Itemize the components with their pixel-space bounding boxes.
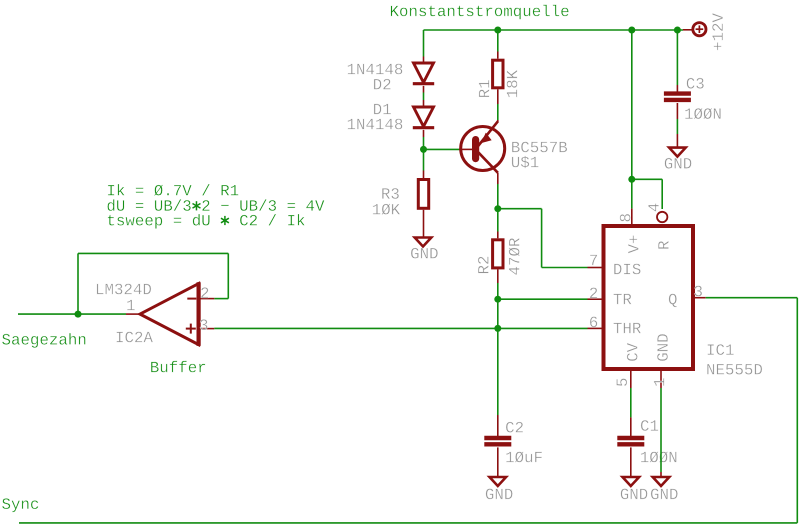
label name D2 xyxy=(374,79,391,90)
label value NE555D xyxy=(707,364,762,375)
label name D1 xyxy=(374,104,391,114)
label value 100N xyxy=(641,451,677,462)
net label Sync xyxy=(2,498,38,512)
pin 3 Q stub xyxy=(693,297,706,299)
node collector junction xyxy=(494,205,501,212)
wire C1 to GND xyxy=(630,447,632,477)
pin number 2 xyxy=(590,288,597,299)
pin number 4 xyxy=(648,204,658,212)
label GND below R3 xyxy=(411,248,438,259)
wire between D2 and D1 xyxy=(423,86,425,107)
transistor U$1 BC557B xyxy=(461,121,505,173)
pin number 7 xyxy=(590,255,597,265)
wire collector junction down to R2 xyxy=(497,209,499,239)
pin number 5 xyxy=(616,379,627,386)
diode D2 1N4148 xyxy=(413,57,434,84)
ground symbol below C1 xyxy=(623,477,640,486)
node THR junction xyxy=(494,325,501,332)
label value 1N4148 of D2 xyxy=(348,64,403,75)
label value 100N xyxy=(685,108,721,119)
ground symbol below C3 xyxy=(669,148,686,157)
node junction rail/C3 branch xyxy=(674,27,681,34)
IC1 NE555D body xyxy=(604,226,694,369)
wire rail to R1 xyxy=(497,30,499,59)
label value LM324D xyxy=(97,284,151,295)
label name IC2A xyxy=(117,332,153,343)
pin 7 DIS stub xyxy=(588,267,604,269)
pin label Q xyxy=(669,294,677,308)
label name U$1 xyxy=(512,156,539,168)
pin number 3 xyxy=(694,286,701,297)
op-amp IC2A LM324D xyxy=(140,282,199,346)
wire base node to transistor base xyxy=(424,148,460,150)
label +12V xyxy=(712,13,723,50)
wire R1 to transistor emitter xyxy=(497,89,499,122)
pin label V+ xyxy=(628,235,638,253)
resistor R3 xyxy=(418,180,428,209)
pin number 1 (op-amp) xyxy=(127,300,135,310)
op-amp output pin 1 stub xyxy=(126,313,140,315)
resistor R1 xyxy=(493,60,503,88)
pin 4 inversion bubble xyxy=(657,212,667,222)
label name C2 xyxy=(506,422,523,433)
op-amp inverting input pin 2 stub xyxy=(199,298,215,300)
wire TR junction down to THR junction xyxy=(497,299,499,328)
pin 1 GND wire down xyxy=(660,369,662,477)
capacitor C2 xyxy=(484,436,511,440)
net label Konstantstromquelle xyxy=(391,5,569,20)
pin 6 THR stub xyxy=(588,327,604,329)
wire D1 to base node xyxy=(423,130,425,149)
pin label CV xyxy=(627,343,638,361)
formula text line 3 xyxy=(108,214,305,229)
wire rail branch to C3 xyxy=(676,30,678,92)
pin label TR xyxy=(613,294,631,304)
pin number 1 xyxy=(654,378,664,386)
wire top +12V rail xyxy=(424,29,684,31)
wire op-amp output to left edge (Saegezahn) xyxy=(18,313,126,315)
wire C2 to GND xyxy=(497,447,499,477)
node pin8/pin4 branch junction xyxy=(628,176,635,183)
label name R3 xyxy=(382,188,399,199)
label GND below pin 1 xyxy=(651,489,678,500)
wire C3 to GND xyxy=(676,103,678,148)
wire transistor collector down xyxy=(497,173,499,209)
pin label GND inside IC xyxy=(657,334,668,361)
pin number 8 xyxy=(620,214,631,221)
wire branch to reset pin 4 xyxy=(632,179,662,209)
pin 8 V+ wire from rail xyxy=(631,30,633,224)
wire non-inverting input to THR line xyxy=(214,327,498,329)
pin number 2 (op-amp) xyxy=(201,287,208,298)
ground symbol below R3 xyxy=(415,238,432,247)
label value 18K xyxy=(507,70,518,97)
label GND below C1 xyxy=(621,489,648,500)
wire THR line to THR pin xyxy=(498,327,588,329)
node base bias junction xyxy=(420,146,427,153)
label GND below C2 xyxy=(486,489,513,500)
label name C3 xyxy=(687,78,704,89)
label value 470R xyxy=(509,238,520,275)
pin number 6 xyxy=(590,317,597,328)
label Buffer xyxy=(151,361,205,373)
label name IC1 xyxy=(708,344,734,355)
capacitor C3 xyxy=(664,91,691,95)
pin label R (reset) xyxy=(658,241,668,249)
label value 10uF xyxy=(506,451,542,462)
wire collector junction to DIS pin (L-route) xyxy=(498,209,588,268)
wire R2 to TR node xyxy=(497,269,499,299)
wire Q to right edge and down (Sync net) xyxy=(19,298,797,523)
wire R3 to GND xyxy=(423,210,425,238)
label name C1 xyxy=(641,420,658,431)
label value 10K xyxy=(373,204,400,215)
pin label DIS xyxy=(614,264,640,275)
pin label THR xyxy=(613,323,640,333)
node junction rail/IC pin8 branch xyxy=(628,27,635,34)
pin number 3 (op-amp) xyxy=(200,319,207,330)
pin 2 TR stub xyxy=(588,298,604,300)
label value 1N4148 of D1 xyxy=(348,119,403,130)
node feedback junction xyxy=(75,311,82,318)
pin 5 CV wire down to C1 xyxy=(630,369,632,436)
net label Saegezahn xyxy=(2,333,85,348)
node TR junction xyxy=(494,296,501,303)
formula text line 2 xyxy=(107,199,324,211)
supply +12V symbol xyxy=(683,23,706,36)
formula text line 1 xyxy=(108,184,238,196)
ground symbol below pin 1 xyxy=(653,477,670,486)
node junction rail/R1 xyxy=(494,27,501,34)
label value BC557B xyxy=(512,142,567,153)
wire TR junction to TR pin xyxy=(498,298,588,300)
op-amp non-inverting input pin 3 stub xyxy=(199,328,215,330)
capacitor C1 xyxy=(617,436,644,440)
wire feedback loop xyxy=(78,253,228,314)
wire rail corner down to diode chain xyxy=(423,30,425,57)
label name R1 xyxy=(479,80,489,97)
label name R2 xyxy=(478,257,489,274)
wire base node down to R3 xyxy=(423,149,425,178)
ground symbol below C2 xyxy=(490,477,507,486)
resistor R2 xyxy=(493,240,503,268)
diode D1 1N4148 xyxy=(414,107,434,127)
wire THR junction down to C2 xyxy=(497,328,499,436)
transistor U$1 BC557B base pin stub xyxy=(459,148,472,150)
label GND below C3 xyxy=(665,158,692,169)
